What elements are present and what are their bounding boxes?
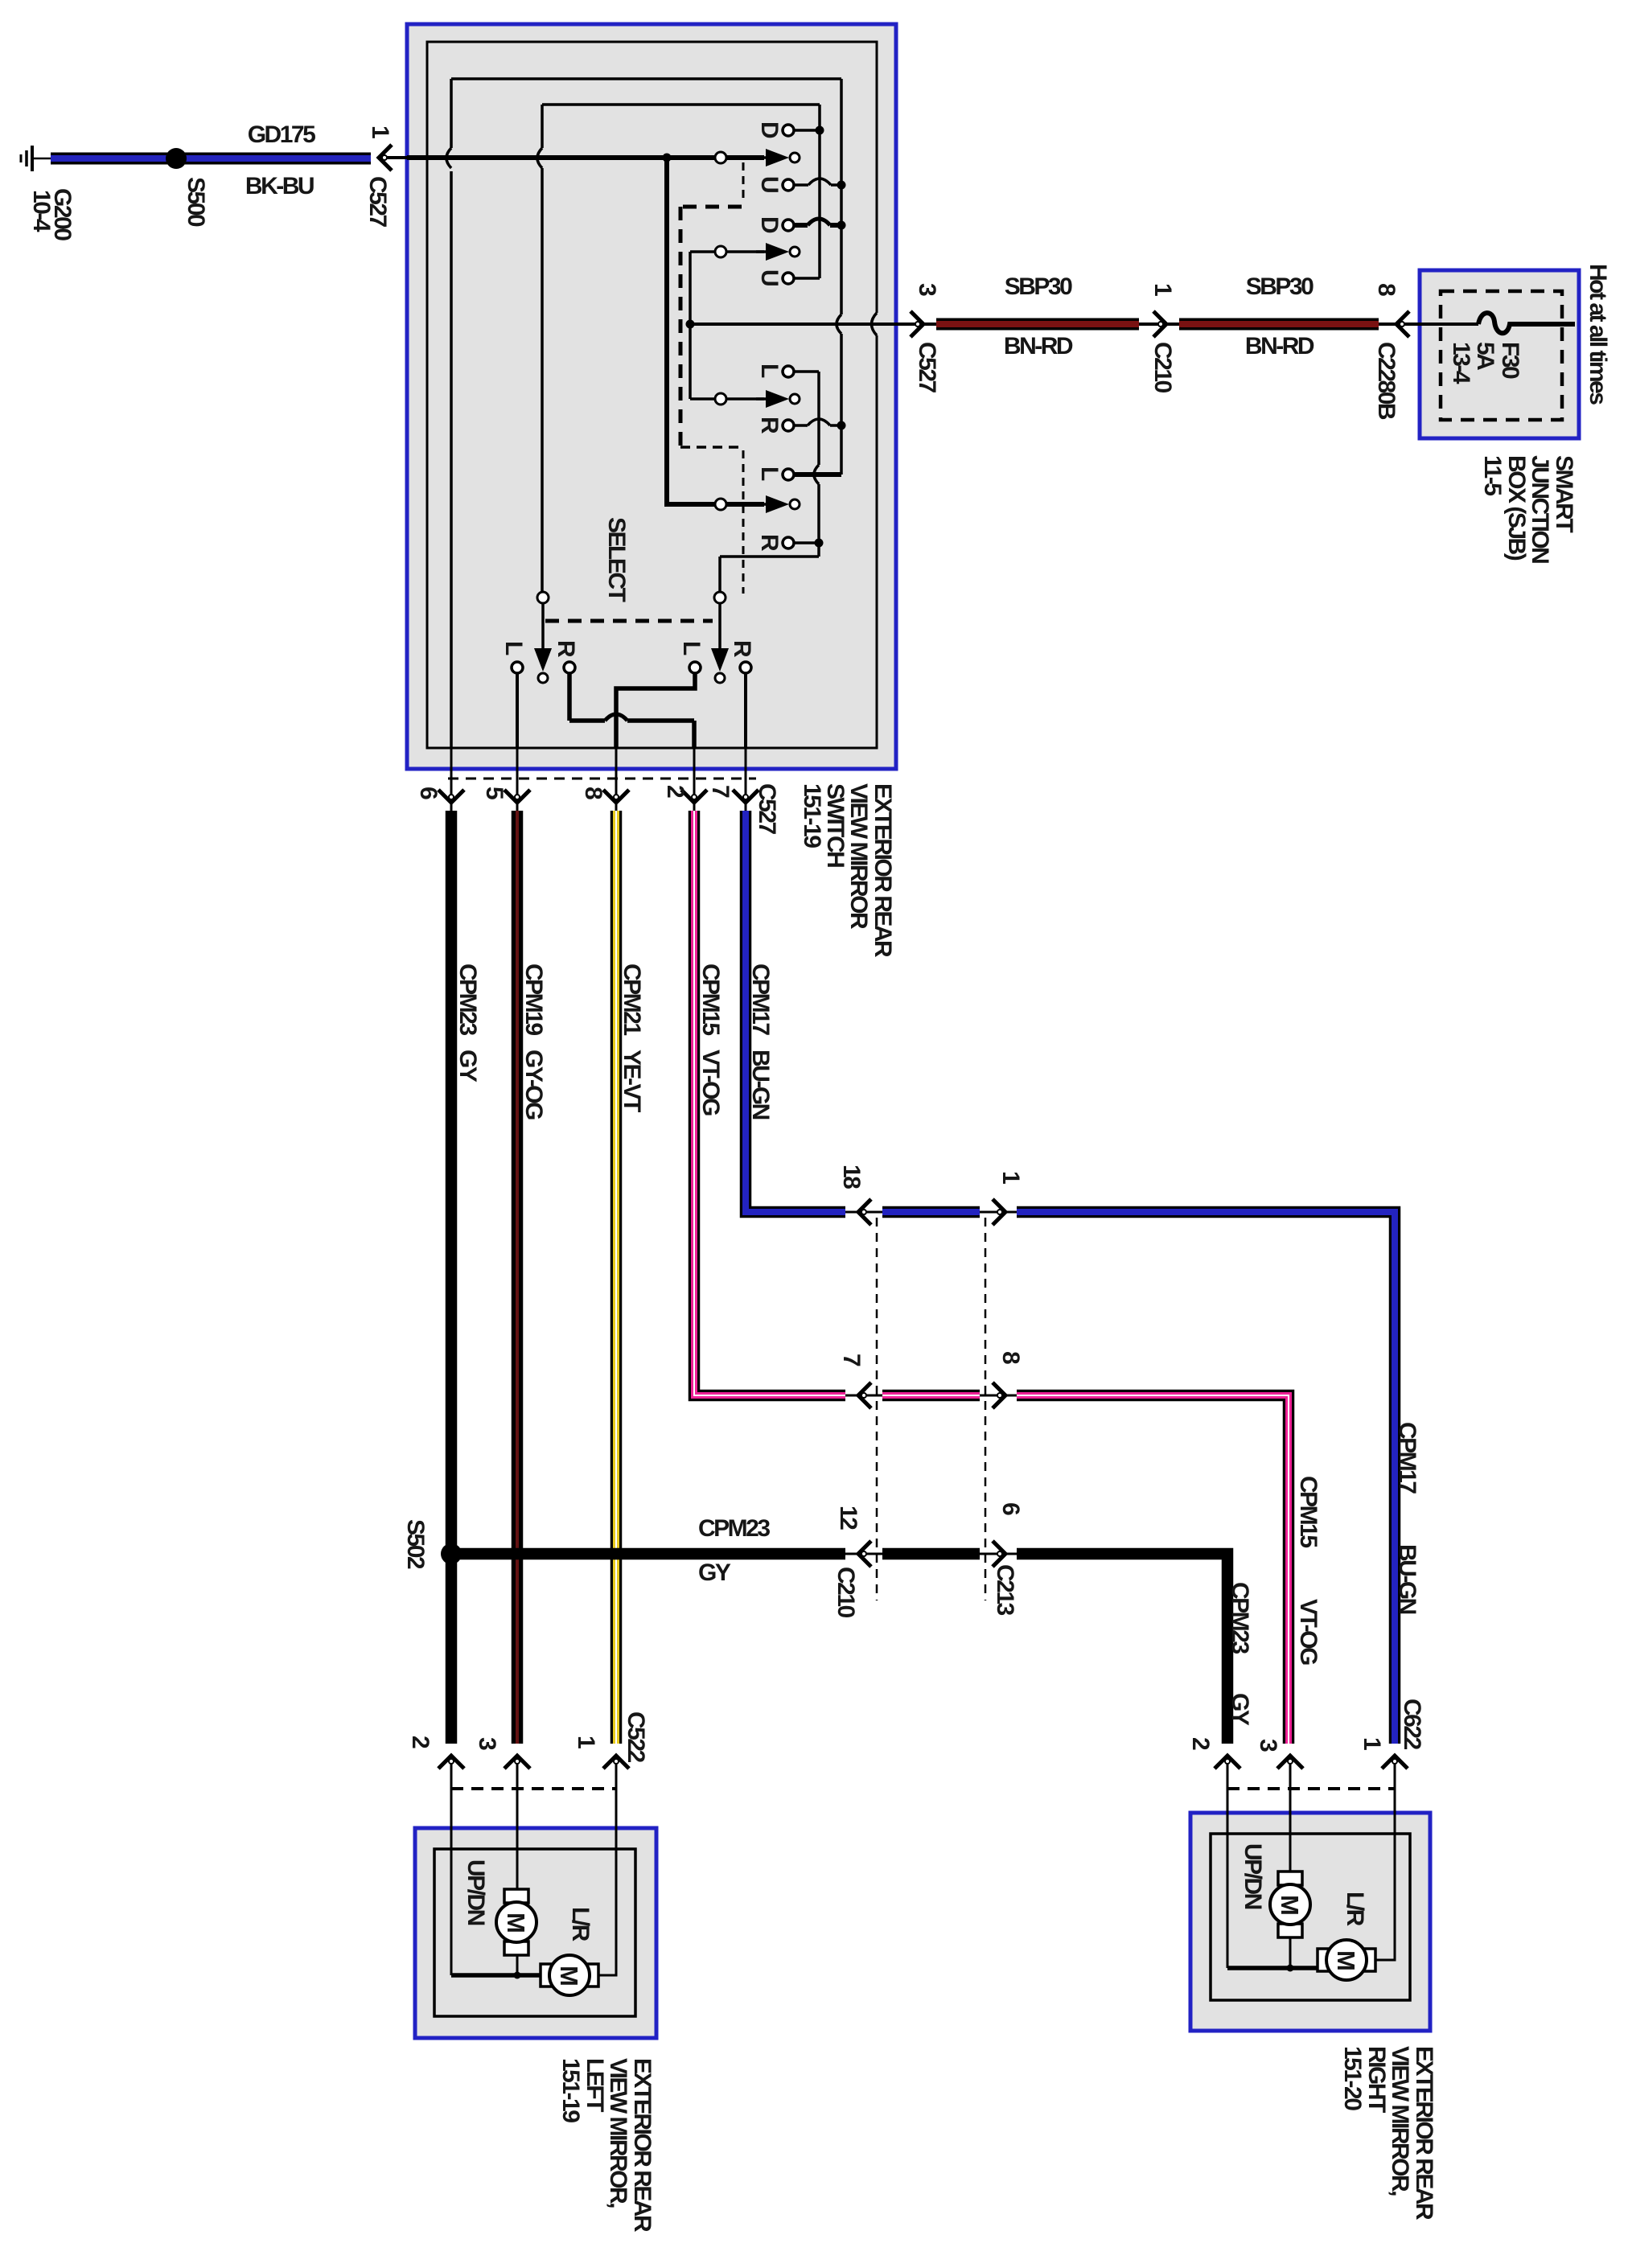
right mirror connector arrows (1215, 1756, 1240, 1769)
right mirror L/R motor M (1318, 1940, 1375, 1980)
frame jog around SBP30 wire (872, 313, 881, 335)
contact D1 line (794, 129, 820, 132)
svg-text:SELECT: SELECT (603, 517, 630, 602)
contact R1 line with hop (794, 424, 841, 427)
svg-text:CPM23: CPM23 (698, 1515, 770, 1542)
svg-text:1: 1 (1149, 283, 1176, 296)
right mirror dashed connector line (1227, 1787, 1395, 1790)
svg-text:SBP30: SBP30 (1246, 273, 1313, 300)
svg-text:EXTERIOR REAR: EXTERIOR REAR (629, 2058, 656, 2233)
svg-text:U: U (756, 176, 783, 192)
left mirror internal bus (451, 1973, 541, 1978)
svg-text:M: M (502, 1913, 530, 1933)
left mirror L/R motor M (541, 1955, 598, 1995)
wiper feed vertical from power junction (689, 252, 692, 399)
svg-text:SMART: SMART (1551, 455, 1577, 532)
svg-text:L: L (756, 466, 783, 481)
svg-text:C522: C522 (623, 1711, 649, 1763)
svg-text:BOX (SJB): BOX (SJB) (1503, 455, 1530, 561)
wiper2 feed line (690, 250, 764, 253)
svg-text:R: R (729, 640, 755, 658)
wire into switch from C527-1 (379, 156, 407, 159)
splice S502 (441, 1543, 462, 1564)
select contact R2 pin7 drop (744, 673, 747, 748)
svg-text:CPM19: CPM19 (520, 963, 547, 1035)
select contact L2 to pin8 (616, 673, 695, 748)
svg-text:BU-GN: BU-GN (1394, 1544, 1420, 1614)
svg-text:VT-OG: VT-OG (697, 1050, 724, 1116)
switch pin lead lines to connector (451, 748, 746, 811)
left mirror UP/DN motor M (496, 1889, 536, 1955)
svg-text:GY: GY (454, 1050, 481, 1083)
svg-text:F30: F30 (1497, 342, 1523, 379)
svg-text:5: 5 (481, 787, 508, 799)
connector C527 dashed line below switch (448, 778, 756, 780)
svg-text:2: 2 (407, 1736, 434, 1748)
svg-text:BK-BU: BK-BU (245, 173, 314, 199)
svg-text:VT-OG: VT-OG (1295, 1599, 1322, 1665)
right mirror inner frame (1211, 1834, 1410, 2000)
svg-text:R: R (756, 417, 783, 434)
contact R2 line (794, 541, 819, 544)
contact L2 line thick (795, 472, 841, 477)
svg-text:R: R (756, 534, 783, 552)
wire CPM15 VT-OG pin2 (837, 1395, 1026, 1397)
svg-text:CPM23: CPM23 (1227, 1582, 1253, 1654)
select contact R to pin2 with hop (569, 673, 694, 748)
exterior rear view mirror left box outline (415, 1828, 656, 2038)
svg-text:GY: GY (1227, 1693, 1253, 1726)
svg-text:3: 3 (1255, 1739, 1281, 1752)
svg-text:UP/DN: UP/DN (462, 1859, 489, 1925)
svg-text:CPM17: CPM17 (1394, 1422, 1420, 1494)
svg-text:10-4: 10-4 (28, 190, 55, 232)
svg-text:8: 8 (1373, 283, 1400, 296)
connector C527 pin1 arrow (379, 145, 392, 171)
svg-text:6: 6 (997, 1502, 1024, 1515)
switch net A: D1-U2 to select left wiper (537, 105, 820, 594)
wire CPM19 GY-OG pin5 (512, 811, 524, 1744)
svg-text:C210: C210 (832, 1567, 859, 1618)
svg-text:L: L (678, 641, 705, 655)
svg-text:D: D (756, 121, 783, 138)
right mirror internal bus (1227, 1966, 1318, 1970)
svg-text:L/R: L/R (1342, 1892, 1368, 1927)
svg-text:L/R: L/R (567, 1907, 594, 1942)
fuse F30 symbol (1478, 313, 1575, 333)
contact D2 line thick with hop (795, 223, 841, 228)
svg-text:151-19: 151-19 (557, 2058, 584, 2122)
svg-text:LEFT: LEFT (582, 2058, 608, 2112)
svg-text:C210: C210 (1149, 342, 1176, 393)
svg-text:GD175: GD175 (248, 121, 315, 148)
svg-text:C527: C527 (914, 342, 940, 393)
svg-text:CPM15: CPM15 (1295, 1476, 1322, 1547)
svg-text:CPM23: CPM23 (454, 963, 481, 1035)
contact L1 line to lower bus (720, 372, 819, 594)
SBP30 feed line inside switch and to SJB (690, 323, 1478, 326)
svg-text:GY-OG: GY-OG (520, 1050, 547, 1120)
svg-text:12: 12 (835, 1506, 861, 1530)
select contact circles (512, 662, 751, 673)
svg-text:Hot at all times: Hot at all times (1585, 264, 1611, 405)
exterior rear view mirror switch box outline (407, 24, 896, 769)
wire CPM17 BU-GN pin7 (837, 1211, 1026, 1214)
svg-text:EXTERIOR REAR: EXTERIOR REAR (869, 783, 896, 958)
C210 C213 arrows on pink row (858, 1383, 871, 1408)
svg-text:S500: S500 (183, 177, 209, 227)
select right wiper (711, 592, 729, 683)
svg-text:3: 3 (474, 1737, 500, 1750)
svg-text:M: M (1276, 1895, 1304, 1916)
C210 C213 arrows on black row (858, 1541, 871, 1567)
svg-text:2: 2 (1187, 1737, 1214, 1750)
left mirror inner frame (434, 1849, 635, 2016)
contact circles D1 U1 D2 U2 L1 R1 L2 R2 (783, 125, 794, 549)
pin arrows 6 5 8 2 7 (438, 790, 464, 803)
exterior rear view mirror right box outline (1190, 1813, 1430, 2031)
svg-text:U: U (756, 269, 783, 286)
junction dots (816, 126, 824, 135)
left mirror dashed connector line (451, 1787, 616, 1790)
svg-text:C2280B: C2280B (1373, 342, 1400, 420)
svg-text:7: 7 (707, 785, 734, 798)
connector C527 pin3 arrow (911, 311, 923, 337)
svg-text:8: 8 (997, 1351, 1024, 1364)
connector C210 pin1 arrow (1153, 311, 1166, 337)
left mirror connector arrows (438, 1756, 464, 1769)
svg-text:3: 3 (914, 283, 940, 296)
splice S500 (166, 148, 187, 169)
svg-text:6: 6 (415, 787, 442, 799)
svg-text:BN-RD: BN-RD (1004, 333, 1073, 360)
left mirror UP/DN lower stub (516, 1955, 519, 1975)
svg-text:C213: C213 (992, 1564, 1018, 1616)
switch wiper2 arrow (756, 243, 800, 261)
svg-text:L: L (756, 364, 783, 378)
svg-text:2: 2 (662, 785, 689, 798)
right mirror connector C622 leads (1227, 1756, 1395, 1968)
svg-text:M: M (555, 1966, 583, 1987)
svg-text:1: 1 (573, 1736, 599, 1748)
svg-text:C527: C527 (754, 783, 780, 835)
wire CPM23 GY pin6 (446, 811, 458, 1744)
svg-text:5A: 5A (1472, 342, 1498, 370)
wire CPM21 YE-VT pin8 (610, 811, 623, 1744)
switch inner frame (427, 42, 877, 748)
dashed mechanical link upper (680, 162, 743, 594)
svg-text:SBP30: SBP30 (1005, 273, 1072, 300)
svg-text:M: M (1332, 1950, 1360, 1971)
wire GD175 BK-BU ground wire (51, 153, 371, 165)
wiper line circles (715, 152, 726, 510)
svg-text:GY: GY (698, 1559, 731, 1586)
svg-text:D: D (756, 216, 783, 233)
select dashed link (545, 619, 713, 623)
svg-text:1: 1 (367, 125, 393, 138)
dashed connector line C210 (876, 1218, 878, 1600)
ground thick drop to wiper4 (667, 158, 764, 504)
svg-text:13-4: 13-4 (1448, 342, 1474, 384)
svg-text:CPM17: CPM17 (747, 963, 774, 1035)
connector C2280B pin8 arrow (1396, 311, 1409, 337)
svg-text:CPM21: CPM21 (619, 963, 645, 1035)
svg-text:C622: C622 (1399, 1699, 1425, 1750)
wire SBP30 BN-RD segment C527-C210 (936, 318, 1139, 331)
switch wiper1 arrow (756, 149, 800, 166)
switch wiper3 arrow (756, 390, 800, 408)
right mirror UP/DN lower stub (1289, 1937, 1292, 1968)
svg-text:C527: C527 (364, 176, 391, 228)
svg-text:BN-RD: BN-RD (1245, 333, 1314, 360)
ground G200 symbol (21, 146, 51, 171)
svg-text:151-19: 151-19 (799, 783, 825, 848)
select left wiper (534, 592, 552, 683)
smart junction box (SJB) outline (1420, 270, 1579, 438)
switch net: pin6 common bus (446, 79, 841, 748)
select contact L pin5 drop (516, 673, 519, 748)
SJB fuse dashed box (1441, 291, 1562, 420)
svg-text:EXTERIOR REAR: EXTERIOR REAR (1411, 2046, 1437, 2221)
svg-text:S502: S502 (402, 1519, 429, 1569)
svg-text:1: 1 (1359, 1737, 1385, 1750)
svg-text:BU-GN: BU-GN (747, 1050, 774, 1120)
svg-text:8: 8 (580, 787, 606, 799)
contact U1 line with hop (794, 183, 841, 187)
svg-text:RIGHT: RIGHT (1363, 2046, 1390, 2113)
switch wiper4 arrow (756, 495, 800, 513)
svg-text:YE-VT: YE-VT (619, 1050, 645, 1112)
wire SBP30 BN-RD segment C210-C2280B (1179, 318, 1379, 331)
svg-text:UP/DN: UP/DN (1239, 1843, 1266, 1909)
svg-text:CPM15: CPM15 (697, 963, 724, 1035)
dashed connector line C213 (985, 1218, 987, 1600)
right mirror UP/DN motor M (1270, 1872, 1310, 1937)
svg-text:18: 18 (838, 1165, 865, 1189)
wiper3 feed line (690, 397, 764, 401)
wire CPM23 GY branch to right mirror (837, 1553, 1026, 1555)
C210 arrows on blue row (858, 1199, 871, 1225)
svg-text:7: 7 (838, 1354, 865, 1366)
left mirror connector C522 leads (451, 1756, 616, 1975)
svg-text:11-5: 11-5 (1479, 455, 1506, 495)
svg-text:R: R (553, 640, 579, 658)
svg-text:L: L (500, 641, 527, 655)
svg-text:151-20: 151-20 (1339, 2046, 1366, 2110)
svg-text:1: 1 (997, 1171, 1024, 1184)
